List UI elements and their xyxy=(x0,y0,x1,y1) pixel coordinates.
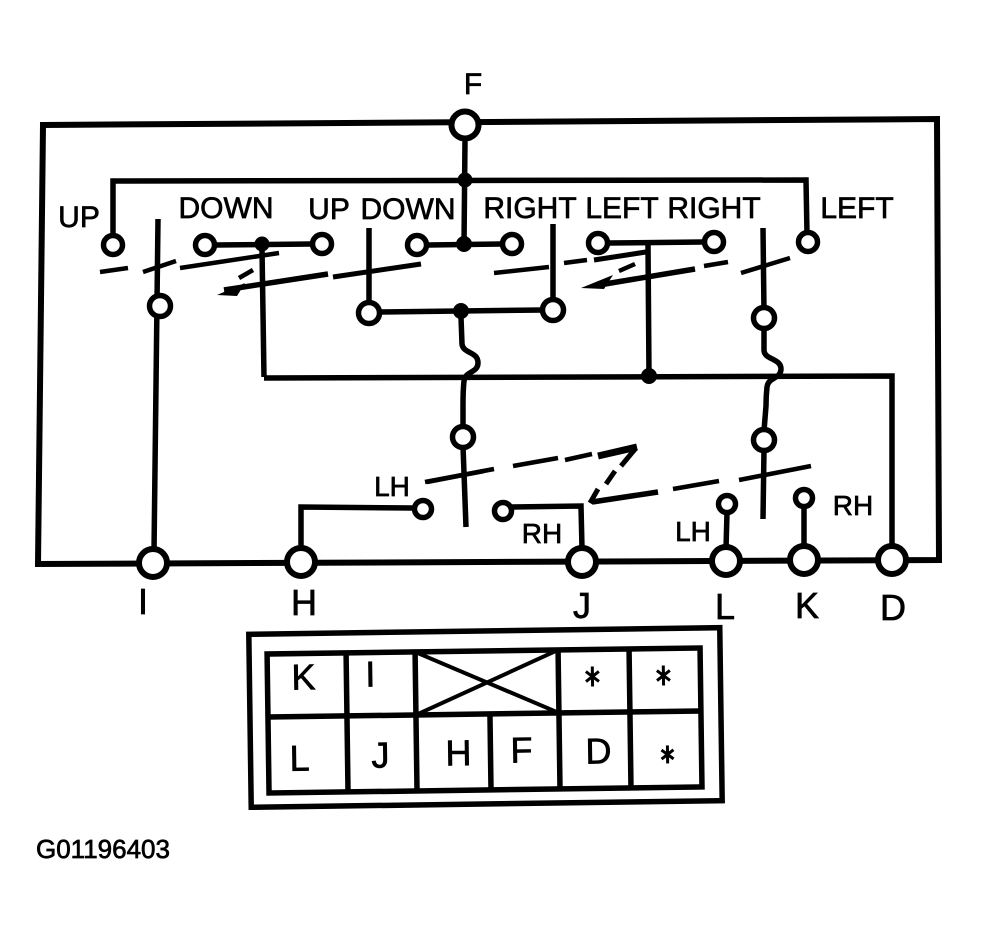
svg-text:H: H xyxy=(445,732,472,773)
svg-text:F: F xyxy=(464,68,482,101)
svg-text:RIGHT: RIGHT xyxy=(667,192,760,225)
wire rail xyxy=(264,376,892,549)
svg-text:UP: UP xyxy=(308,193,350,226)
connector row divider xyxy=(268,711,701,717)
contact LH front xyxy=(415,501,432,518)
contact LH rear xyxy=(719,496,736,513)
terminal H xyxy=(287,548,315,576)
wire middle pair xyxy=(378,310,543,312)
terminal D xyxy=(878,546,906,574)
svg-text:K: K xyxy=(291,656,316,697)
svg-text:F: F xyxy=(510,729,533,770)
contact RH front xyxy=(495,503,512,520)
wire switch pole 4 upper xyxy=(763,228,764,312)
cell star 1 xyxy=(586,666,599,686)
wire J riser xyxy=(512,506,582,548)
linkage arrow top right xyxy=(581,275,613,289)
svg-text:RH: RH xyxy=(833,490,873,521)
svg-text:RH: RH xyxy=(522,518,562,549)
wire UPDOWN to RIGHT contact xyxy=(428,244,501,245)
node junction at 262 xyxy=(255,237,270,252)
wire drop from 262 to rail xyxy=(262,249,264,377)
contact 6 LEFT xyxy=(589,234,608,253)
linkage arrow top left xyxy=(217,283,245,296)
node junction F column xyxy=(456,236,472,252)
wire switch pole 1 xyxy=(154,219,158,552)
linkage dashes bottom xyxy=(427,447,719,503)
contact 3 xyxy=(313,235,332,254)
contact pole1 ring xyxy=(150,296,171,317)
node junction middle pair xyxy=(453,303,469,319)
wire L stem xyxy=(726,513,727,549)
svg-text:H: H xyxy=(291,582,317,623)
wire inner bus xyxy=(113,180,807,238)
svg-text:D: D xyxy=(880,587,906,628)
wire F drop xyxy=(464,140,465,245)
svg-text:I: I xyxy=(365,654,376,695)
wire K stem xyxy=(801,507,807,548)
wire LEFT to RIGHT contact xyxy=(609,242,703,243)
connector inner box xyxy=(267,648,702,793)
svg-text:UP: UP xyxy=(58,201,100,234)
wire DOWN to contact xyxy=(216,244,311,245)
cell star 2 xyxy=(657,665,670,685)
wire hop center xyxy=(461,317,478,430)
contact pole2 ring xyxy=(359,303,380,324)
svg-text:G01196403: G01196403 xyxy=(36,834,170,864)
svg-text:DOWN: DOWN xyxy=(361,193,456,226)
wire right switch arm xyxy=(763,449,764,519)
contact right lower ring xyxy=(754,430,775,451)
wire switch pole 3 xyxy=(550,224,556,305)
svg-text:DOWN: DOWN xyxy=(179,192,274,225)
contact DOWN xyxy=(196,236,215,255)
node junction rail 648 xyxy=(641,368,657,384)
svg-text:LEFT: LEFT xyxy=(585,192,658,225)
linkage tick right arm xyxy=(739,466,811,480)
wire hop right xyxy=(764,330,781,431)
connector top dividers xyxy=(343,653,349,716)
wire drop from 648 to rail xyxy=(648,245,649,375)
contact RH rear xyxy=(796,490,813,507)
svg-text:RIGHT: RIGHT xyxy=(483,192,576,225)
svg-text:D: D xyxy=(585,730,612,771)
contact 5 xyxy=(503,235,522,254)
terminal K xyxy=(790,546,818,574)
svg-text:J: J xyxy=(371,734,390,775)
connector X cross xyxy=(415,650,559,715)
wire H riser xyxy=(301,507,413,551)
node junction F-bus xyxy=(458,173,473,188)
contact 7 RIGHT xyxy=(705,233,724,252)
wire center switch arm xyxy=(463,446,466,527)
linkage tick center arm xyxy=(425,469,494,482)
contact UP xyxy=(104,236,123,255)
terminal L xyxy=(712,547,740,575)
contact 8 LEFT xyxy=(799,233,818,252)
svg-text:J: J xyxy=(573,585,591,626)
linkage dashes top right xyxy=(494,252,790,284)
contact pole3 ring xyxy=(543,300,564,321)
contact center lower ring xyxy=(453,427,474,448)
linkage dashes top left xyxy=(100,253,421,290)
terminal F xyxy=(452,112,479,139)
svg-text:I: I xyxy=(138,581,148,622)
connector pinout table xyxy=(249,628,722,808)
contact 4 xyxy=(408,236,427,255)
terminal I xyxy=(139,549,167,577)
connector bottom dividers xyxy=(347,716,348,791)
svg-text:K: K xyxy=(795,585,819,626)
terminal J xyxy=(568,548,596,576)
svg-text:L: L xyxy=(715,586,735,627)
connector outer box xyxy=(249,628,722,808)
svg-text:LH: LH xyxy=(374,471,410,502)
svg-text:LH: LH xyxy=(675,516,711,547)
contact pole4 ring xyxy=(754,308,775,329)
wire switch pole 2 xyxy=(366,228,372,308)
svg-text:L: L xyxy=(289,737,310,778)
cell star 3 xyxy=(661,745,673,763)
svg-text:LEFT: LEFT xyxy=(820,192,893,225)
wire outer border xyxy=(38,119,939,564)
